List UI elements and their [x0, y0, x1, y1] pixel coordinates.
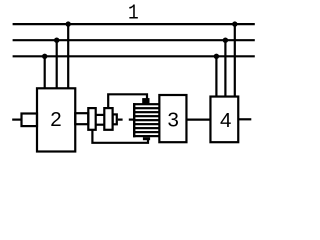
- svg-text:2: 2: [50, 108, 61, 131]
- resistor block stripes: [133, 103, 159, 105]
- wire left tap 1: [44, 56, 46, 88]
- dashed shaft dash 1: [118, 118, 123, 120]
- top wire from flange2 to resistor block: [108, 94, 147, 108]
- sleeve bottom line: [96, 124, 105, 126]
- junction dot right middle: [223, 38, 228, 43]
- svg-text:3: 3: [167, 109, 178, 132]
- coupling flange 1: [88, 108, 95, 130]
- resistor block left border: [133, 103, 135, 137]
- junction dot right bottom: [214, 54, 219, 59]
- wire right tap 3: [234, 24, 236, 97]
- junction dot left middle: [54, 38, 59, 43]
- junction dot left top: [66, 21, 71, 26]
- bus line middle: [13, 39, 255, 41]
- output shaft right of box4: [238, 118, 251, 120]
- bus line bottom: [13, 55, 255, 57]
- box 2 (engine): [37, 88, 75, 151]
- left shaft square: [22, 114, 38, 127]
- sleeve top line: [96, 114, 105, 116]
- bus line top: [13, 23, 255, 25]
- resistor block bottom terminal tab: [143, 137, 150, 140]
- box 3 (gearbox): [159, 95, 186, 142]
- dashed shaft dash 2: [129, 118, 134, 120]
- junction dot right top: [232, 21, 237, 26]
- box 4 (machine): [210, 97, 238, 143]
- left input shaft: [12, 118, 21, 120]
- wire right tap 1: [215, 56, 217, 96]
- wire left tap 3: [67, 24, 69, 88]
- svg-text:1: 1: [128, 2, 139, 26]
- stub on box2 right: [75, 113, 88, 124]
- junction dot left bottom: [42, 54, 47, 59]
- bottom wire from flange1 to resistor block: [92, 130, 148, 143]
- wire left tap 2: [56, 40, 58, 88]
- shaft box3 to box4: [186, 118, 210, 120]
- wire right tap 2: [224, 40, 226, 96]
- svg-text:4: 4: [220, 109, 231, 132]
- stub on flange2 right: [113, 114, 117, 124]
- coupling flange 2: [104, 108, 112, 130]
- resistor block top terminal tab: [142, 98, 149, 103]
